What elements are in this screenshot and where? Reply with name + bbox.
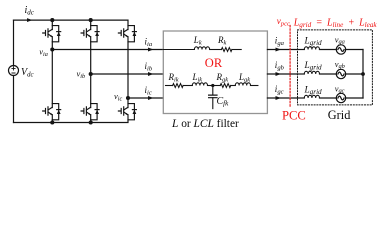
svg-text:L or LCL filter: L or LCL filter bbox=[171, 118, 239, 130]
svg-text:vic: vic bbox=[114, 91, 123, 102]
arrow i_ga bbox=[276, 48, 281, 52]
arrow i_ib bbox=[148, 72, 153, 76]
wire: L-filter row lead-out bbox=[232, 49, 241, 51]
svg-text:Lk: Lk bbox=[193, 35, 202, 47]
wire: left DC rail upper bbox=[13, 20, 15, 66]
transistor: phase-c upper IGBT with freewheeling diode bbox=[118, 26, 136, 42]
wire: grid neutral bus bbox=[362, 50, 364, 99]
svg-text:Grid: Grid bbox=[328, 108, 351, 122]
transistor: phase-b lower IGBT with freewheeling diode bbox=[81, 104, 99, 120]
svg-text:Vdc: Vdc bbox=[21, 67, 34, 79]
arrow i_gb bbox=[276, 72, 281, 76]
ac source v_gb bbox=[336, 69, 345, 78]
svg-text:Cfk: Cfk bbox=[217, 96, 230, 108]
arrow i_ic bbox=[148, 96, 153, 100]
wire: grid phase-c lead-in bbox=[298, 97, 305, 99]
inductor L_grid (phase a) bbox=[304, 47, 319, 50]
inductor L_grid (phase b) bbox=[304, 71, 319, 74]
svg-text:Lik: Lik bbox=[192, 72, 203, 84]
svg-text:vgc: vgc bbox=[335, 83, 345, 94]
wire: grid phase-b to neutral bbox=[346, 73, 363, 75]
svg-text:iga: iga bbox=[275, 36, 285, 48]
wire: between R_gk and L_gk bbox=[231, 85, 236, 87]
wire: phase-a line inverter to filter bbox=[52, 49, 163, 51]
filter box bbox=[163, 31, 267, 114]
transistor: phase-c lower IGBT with freewheeling diode bbox=[118, 104, 136, 120]
wire: between R_ik and L_ik bbox=[183, 85, 192, 87]
wire: phase-b line filter to grid bbox=[267, 73, 297, 75]
node: top bus leg2 junction bbox=[89, 18, 93, 22]
svg-text:iib: iib bbox=[145, 61, 153, 73]
PCC dashed line bbox=[289, 26, 291, 108]
ac source v_ga bbox=[336, 45, 345, 54]
wire: L_ik to R_gk through C node bbox=[208, 85, 221, 87]
arrow i_gc bbox=[276, 96, 281, 100]
wire: leg2 top bbox=[90, 20, 92, 26]
node: phase-b output junction bbox=[89, 72, 93, 76]
wire: leg3 middle bbox=[127, 42, 129, 104]
wire: LCL row lead-in bbox=[166, 85, 173, 87]
dc source Vdc bbox=[9, 66, 19, 76]
node: top bus leg1 junction bbox=[50, 18, 54, 22]
node: neutral junction phase b bbox=[361, 72, 365, 76]
wire: bottom DC bus bbox=[14, 120, 129, 123]
inductor L_ik bbox=[192, 83, 207, 86]
wire: grid phase-c middle bbox=[320, 97, 337, 99]
transistor: phase-b upper IGBT with freewheeling diode bbox=[81, 26, 99, 42]
node: phase-c output junction bbox=[126, 96, 130, 100]
svg-text:vga: vga bbox=[335, 34, 345, 45]
inductor L_gk bbox=[235, 83, 250, 86]
inductor L_k bbox=[194, 47, 209, 50]
arrow i_dc on top bus bbox=[27, 18, 32, 22]
svg-text:Lgrid = Lline + Lleak: Lgrid = Lline + Lleak bbox=[293, 17, 377, 29]
wire: between L_k and R_k bbox=[210, 49, 222, 51]
node: capacitor tap junction bbox=[211, 84, 214, 87]
arrow i_ia bbox=[148, 48, 153, 52]
wire: left DC rail lower bbox=[13, 76, 15, 123]
svg-text:Lgrid: Lgrid bbox=[304, 86, 323, 97]
wire: grid phase-a lead-in bbox=[298, 49, 305, 51]
wire: leg1 middle bbox=[51, 42, 53, 104]
wire: leg1 top bbox=[51, 20, 53, 26]
wire: leg2 bottom bbox=[90, 120, 92, 123]
svg-text:Lgrid: Lgrid bbox=[304, 61, 323, 72]
capacitor C_fk bbox=[209, 95, 217, 98]
svg-text:OR: OR bbox=[205, 56, 223, 70]
wire: capacitor top lead bbox=[212, 86, 214, 95]
svg-text:igc: igc bbox=[275, 84, 284, 96]
svg-text:idc: idc bbox=[25, 5, 35, 17]
node: bottom bus leg1 junction bbox=[50, 120, 54, 124]
wire: phase-b line inverter to filter bbox=[91, 73, 164, 75]
wire: phase-c line inverter to filter bbox=[128, 97, 163, 99]
svg-text:vpcc: vpcc bbox=[277, 16, 290, 28]
node: bottom bus leg2 junction bbox=[89, 120, 93, 124]
svg-text:igb: igb bbox=[275, 60, 285, 72]
wire: phase-c line filter to grid bbox=[267, 97, 297, 99]
grid box bbox=[298, 30, 373, 105]
svg-text:vgb: vgb bbox=[335, 59, 345, 70]
node: phase-a output junction bbox=[50, 47, 54, 51]
svg-text:vib: vib bbox=[77, 68, 86, 79]
resistor R_gk bbox=[220, 84, 231, 88]
svg-text:Rgk: Rgk bbox=[216, 72, 229, 84]
svg-text:PCC: PCC bbox=[282, 108, 306, 122]
transistor: phase-a upper IGBT with freewheeling diode bbox=[43, 26, 61, 42]
wire: grid phase-b middle bbox=[320, 73, 337, 75]
wire: grid phase-b lead-in bbox=[298, 73, 305, 75]
inductor L_grid (phase c) bbox=[304, 95, 319, 98]
wire: LCL row lead-out bbox=[251, 85, 258, 87]
wire: grid phase-a to neutral bbox=[346, 49, 363, 51]
resistor R_ik bbox=[173, 84, 184, 88]
wire: capacitor bottom lead bbox=[212, 98, 214, 109]
transistor: phase-a lower IGBT with freewheeling diode bbox=[43, 104, 61, 120]
svg-text:Rk: Rk bbox=[217, 35, 227, 47]
wire: leg1 bottom bbox=[51, 120, 53, 123]
wire: top DC bus bbox=[14, 20, 129, 26]
wire: L-filter row lead-in bbox=[163, 49, 194, 51]
wire: phase-a line filter to grid bbox=[267, 49, 297, 51]
ac source v_gc bbox=[336, 93, 345, 102]
svg-text:iic: iic bbox=[145, 85, 152, 97]
wire: leg2 middle bbox=[90, 42, 92, 104]
wire: grid phase-a middle bbox=[320, 49, 337, 51]
svg-text:iia: iia bbox=[145, 36, 153, 48]
svg-text:Lgk: Lgk bbox=[238, 72, 250, 84]
wire: grid phase-c to neutral bbox=[346, 97, 363, 99]
svg-text:via: via bbox=[39, 47, 48, 58]
resistor R_k bbox=[221, 48, 232, 52]
svg-text:Lgrid: Lgrid bbox=[304, 37, 323, 48]
svg-text:Rik: Rik bbox=[168, 72, 179, 84]
